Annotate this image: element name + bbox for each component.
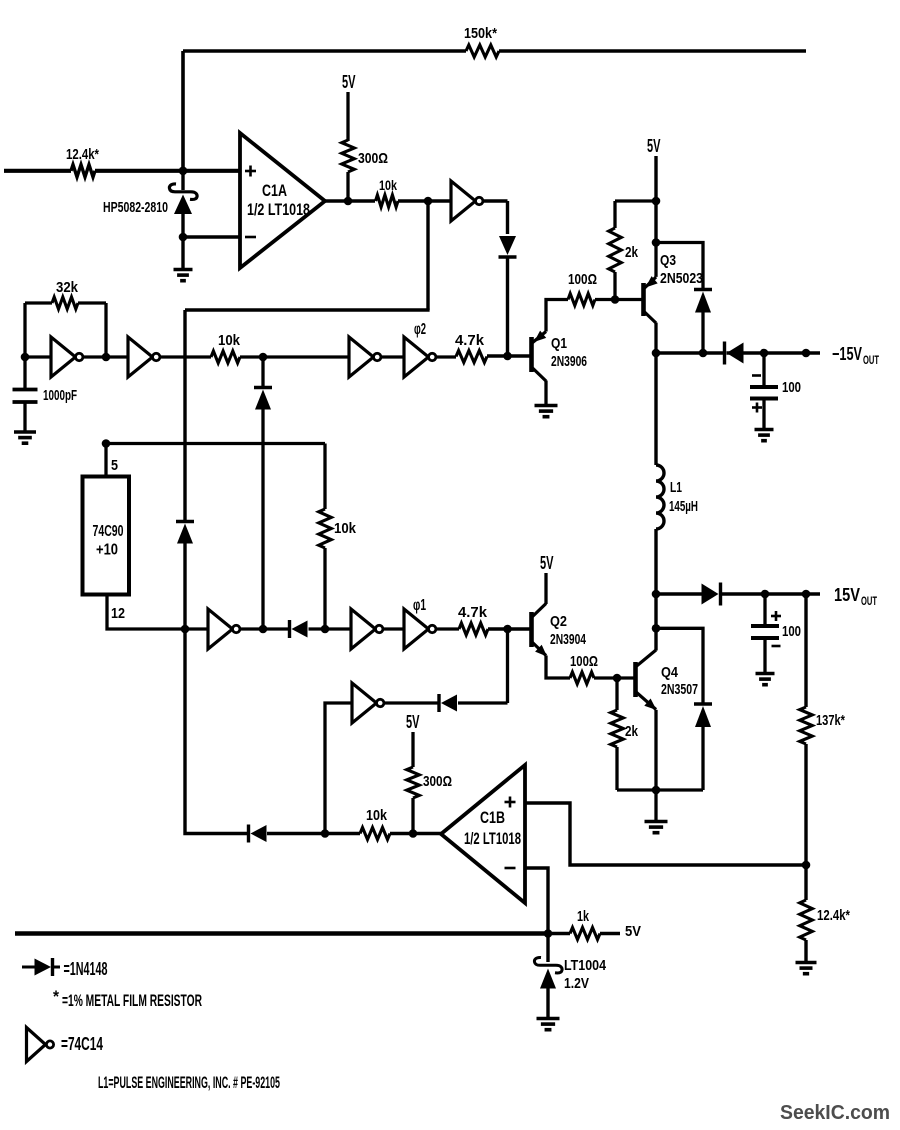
wire row629 segment a: [185, 627, 208, 630]
node C1A noninverting input junction: [179, 167, 188, 176]
svg-text:=1N4148: =1N4148: [64, 959, 108, 979]
svg-text:2k: 2k: [625, 244, 639, 261]
node bus junction row629: [181, 625, 190, 634]
wire to inverter: [398, 199, 451, 202]
wire Q3 collector to -15 rail: [654, 323, 657, 353]
wire phi1 to 4.7k: [436, 627, 459, 630]
svg-text:φ2: φ2: [414, 321, 426, 338]
node +15V cap junction: [761, 590, 770, 599]
power 5V for 300ohm: [342, 72, 356, 141]
node Q2 base drive junction: [503, 625, 512, 634]
node 150k tap junction: [802, 349, 811, 358]
diode D4 on bus x185: [176, 522, 194, 630]
inverter U2H 74C14 phi1: [404, 597, 436, 649]
svg-text:LT1004: LT1004: [564, 957, 607, 974]
svg-text:HP5082-2810: HP5082-2810: [103, 200, 168, 216]
svg-text:300Ω: 300Ω: [423, 773, 452, 790]
diode D9 1N4148 -15V: [725, 342, 744, 365]
wire 100ohm to Q4 base: [594, 676, 635, 679]
svg-text:SeekIC.com: SeekIC.com: [780, 1102, 890, 1124]
svg-text:100Ω: 100Ω: [568, 271, 597, 288]
power 5V for Q2: [540, 553, 554, 604]
ground under LT1004: [537, 1019, 560, 1030]
wire 32k right vertical: [104, 303, 107, 357]
resistor 10k vertical: [319, 509, 357, 629]
wire top feedback net: [183, 49, 806, 53]
svg-text:12.4k*: 12.4k*: [66, 147, 99, 163]
svg-text:=74C14: =74C14: [61, 1034, 103, 1054]
svg-text:150k*: 150k*: [464, 25, 497, 42]
wire vertical from 150k to C1A + input: [181, 51, 185, 171]
svg-text:10k: 10k: [366, 807, 388, 824]
wire 137k to 12.4k: [804, 865, 807, 900]
svg-text:2k: 2k: [625, 723, 639, 740]
svg-text:5V: 5V: [406, 712, 420, 732]
wire diode D2 to phi2 node: [506, 257, 509, 356]
ground under C3: [756, 640, 775, 685]
wire main vertical bus x185: [183, 310, 186, 521]
svg-text:+10: +10: [96, 542, 118, 559]
svg-text:12: 12: [111, 605, 125, 622]
wire input left with node: [4, 169, 240, 173]
ground under 12.4k*: [796, 963, 817, 974]
svg-text:100: 100: [782, 623, 801, 640]
node diode D11 branch junction: [652, 624, 661, 633]
wire pin5 stub: [106, 444, 118, 478]
svg-text:Q3: Q3: [660, 252, 676, 269]
node C1A inverting input junction: [179, 233, 188, 242]
inverter U2C 74C14 osc buffer: [128, 337, 160, 377]
wire inv D to inv E: [381, 355, 404, 358]
svg-text:=1% METAL FILM RESISTOR: =1% METAL FILM RESISTOR: [62, 991, 202, 1010]
wire row629 segment c: [309, 627, 352, 630]
node inv I branch junction: [321, 829, 330, 838]
wire Q1 emitter up: [546, 300, 568, 332]
ground under schottky: [174, 237, 193, 281]
legend diode symbol: [22, 958, 60, 976]
diode D6 1N4148 row703: [439, 694, 457, 712]
wire Q4 emitter down: [654, 710, 657, 790]
node diode branch junction: [259, 353, 268, 362]
wire row703 diode to corner: [458, 701, 508, 704]
node 2k top junction bottom: [613, 674, 622, 683]
svg-text:145µH: 145µH: [669, 498, 698, 515]
svg-text:1000pF: 1000pF: [43, 387, 77, 404]
svg-text:1.2V: 1.2V: [564, 975, 589, 992]
svg-text:4.7k: 4.7k: [458, 604, 488, 621]
svg-text:5V: 5V: [647, 136, 661, 156]
resistor 100ohm bottom: [570, 653, 598, 684]
wire 10k to C1B: [390, 832, 441, 835]
node D8 junction: [699, 349, 708, 358]
node C1A output junction: [344, 197, 353, 206]
IC U3 74C90 divide by 10: [83, 477, 130, 595]
node inverter input junction: [424, 197, 433, 206]
wire row 443: [106, 444, 325, 510]
svg-text:12.4k*: 12.4k*: [817, 907, 850, 924]
svg-text:32k: 32k: [56, 279, 79, 296]
wire C1B minus input: [525, 868, 548, 934]
node 5V to 2k junction: [652, 197, 661, 206]
svg-text:OUT: OUT: [863, 355, 879, 367]
diode D8 1N4148 vertical: [694, 290, 712, 354]
diode D11 1N4148 vertical bottom: [694, 704, 712, 790]
node Q1 base drive junction: [503, 352, 512, 361]
resistor 12.4k* input: [66, 147, 99, 177]
wire C1A output: [325, 199, 375, 202]
svg-text:10k: 10k: [334, 520, 357, 537]
wire 4.7k to Q2 base: [488, 627, 531, 630]
wire to diode D8: [656, 243, 703, 289]
svg-text:10k: 10k: [379, 177, 397, 193]
node divider junction x106: [102, 439, 111, 448]
svg-text:C1A: C1A: [262, 181, 287, 200]
svg-text:Q1: Q1: [551, 335, 567, 352]
wire 4.7k to Q1 base: [487, 354, 531, 357]
inductor L1 145uH: [656, 353, 698, 594]
capacitor C3 100uF +15V: [751, 594, 801, 646]
svg-text:5: 5: [111, 457, 118, 474]
wire from 10k node down-left to main vertical: [185, 201, 430, 310]
inverter U2G 74C14: [351, 609, 383, 649]
svg-text:2N3906: 2N3906: [551, 353, 587, 370]
wire row629 segment b: [240, 627, 288, 630]
power 5V top right: [647, 136, 661, 243]
wire bottom row to 10k: [267, 832, 360, 835]
capacitor C2 100uF -15V: [750, 353, 801, 413]
node 300ohm junction bottom: [409, 829, 418, 838]
transistor Q1 2N3906: [532, 331, 588, 381]
ground under Q1 collector: [535, 381, 558, 417]
svg-text:100: 100: [782, 379, 801, 396]
resistor 12.4k* bottom: [800, 900, 850, 962]
wire row629 segment d: [383, 627, 404, 630]
inverter U2I 74C14 row703: [352, 683, 384, 723]
svg-text:1k: 1k: [577, 908, 589, 925]
resistor 137k*: [800, 594, 845, 865]
diode D2 1N4148 down: [499, 236, 517, 257]
node osc feedback junction: [102, 353, 111, 362]
wire C1A inverting input: [183, 235, 240, 238]
wire -15V rail: [656, 351, 820, 355]
label -15Vout: [832, 344, 879, 367]
svg-text:5V: 5V: [625, 923, 641, 940]
node diode branch top junction: [652, 238, 661, 247]
wire Q2 emitter down: [546, 656, 570, 679]
resistor 10k osc row: [211, 332, 241, 363]
wire pin12 to row 629: [107, 595, 185, 630]
svg-text:5V: 5V: [342, 72, 356, 92]
resistor 100ohm top: [568, 271, 597, 306]
inverter U2F 74C14 row629: [208, 609, 240, 649]
svg-text:1/2 LT1018: 1/2 LT1018: [247, 201, 310, 219]
node -15V cap junction: [760, 349, 769, 358]
resistor 10k bottom: [360, 807, 390, 840]
svg-text:300Ω: 300Ω: [358, 150, 388, 167]
resistor 32k osc feedback: [25, 279, 106, 309]
wire inverter A output: [483, 201, 508, 234]
svg-text:2N3507: 2N3507: [661, 681, 698, 698]
svg-text:φ1: φ1: [413, 597, 426, 614]
ground under C2: [755, 401, 774, 441]
wire 100ohm to Q3 base: [595, 298, 643, 301]
diode D12 LT1004 1.2V zener: [534, 934, 606, 1019]
wire inv B out: [83, 355, 128, 358]
transistor Q2 2N3904: [532, 604, 587, 657]
diode D3 on bus to row629: [254, 357, 272, 629]
power 5V right label: [625, 923, 641, 940]
diode D1 HP5082-2810 schottky: [103, 171, 197, 237]
svg-text:5V: 5V: [540, 553, 554, 573]
wire bottom of driver: [617, 788, 703, 791]
diode D7 1N4148 bottom: [249, 825, 267, 843]
wire 5V to 2k: [615, 199, 656, 202]
svg-text:15V: 15V: [834, 585, 860, 605]
resistor 300ohm bottom: [407, 767, 452, 834]
node Q4 emitter ground junction: [652, 786, 661, 795]
resistor 150k*: [464, 25, 499, 57]
wire bottom row from bus: [185, 629, 248, 834]
inverter U2B 74C14 osc: [51, 337, 83, 377]
svg-text:1/2 LT1018: 1/2 LT1018: [464, 830, 521, 848]
transistor Q3 2N5023: [644, 252, 704, 323]
inverter U2A 74C14: [451, 181, 483, 221]
legend L1 note: [98, 1073, 280, 1092]
diode D5 1N4148 row629: [290, 620, 308, 638]
node osc input junction: [21, 353, 30, 362]
node 137k tap junction: [802, 590, 811, 599]
resistor 2k top: [609, 201, 639, 300]
svg-text:10k: 10k: [218, 332, 241, 349]
svg-text:C1B: C1B: [480, 808, 505, 827]
wire Q2 node down to row 703: [506, 629, 509, 703]
svg-text:100Ω: 100Ω: [570, 653, 598, 670]
power 5V mid: [406, 712, 420, 767]
wire 10k to inv D: [240, 355, 349, 358]
ground under 1000pF: [14, 404, 36, 444]
svg-text:74C90: 74C90: [93, 523, 124, 540]
diode D10 1N4148 +15V: [702, 583, 721, 606]
op-amp U1B C1B 1/2 LT1018: [441, 765, 525, 903]
capacitor 1000pF osc: [13, 357, 78, 404]
svg-text:137k*: 137k*: [816, 712, 845, 729]
inverter U2D 74C14: [349, 337, 381, 377]
wire 32k left vertical: [23, 303, 26, 357]
legend inverter symbol: [27, 1028, 54, 1062]
svg-text:Q4: Q4: [661, 664, 679, 681]
resistor 10k after C1A: [376, 177, 399, 207]
wire main vertical L1 to Q4 collector: [654, 594, 657, 651]
node Q3 collector junction: [652, 349, 661, 358]
svg-text:2N5023: 2N5023: [660, 270, 703, 287]
resistor 2k bottom: [611, 678, 639, 790]
legend 74C14 text: [61, 1034, 103, 1054]
wire inv I input from bottom row: [325, 703, 352, 834]
wire inv C out to 10k: [160, 355, 211, 358]
svg-text:L1=PULSE ENGINEERING, INC. #: L1=PULSE ENGINEERING, INC. # PE-92105: [98, 1073, 280, 1092]
ground under Q4: [645, 790, 668, 833]
node 10k bottom junction: [321, 625, 330, 634]
wire to diode D11: [656, 628, 703, 703]
node diode D3 target junction: [259, 625, 268, 634]
node 2k bottom junction: [611, 295, 620, 304]
svg-text:Q2: Q2: [550, 613, 567, 630]
wire feedback to C1B +: [525, 803, 806, 865]
node C1B minus rail junction: [544, 929, 553, 938]
resistor 4.7k phi1: [458, 604, 488, 635]
svg-text:*: *: [53, 987, 59, 1006]
wire phi2 out to 4.7k: [436, 355, 456, 358]
node L1 bottom junction: [652, 590, 661, 599]
resistor 1k: [548, 908, 620, 940]
transistor Q4 2N3507: [636, 650, 699, 710]
label +15Vout: [834, 585, 877, 608]
wire inv I out to diode: [384, 701, 439, 704]
wire Q3 emitter to 5V line: [654, 243, 657, 277]
watermark SeekIC.com: [780, 1102, 890, 1124]
inverter U2E 74C14 phi2: [404, 321, 436, 377]
svg-text:OUT: OUT: [861, 596, 877, 608]
wire +15V rail: [656, 592, 820, 596]
wire bottom 5V rail: [15, 931, 548, 935]
svg-text:4.7k: 4.7k: [455, 332, 485, 349]
legend star note: [53, 987, 202, 1010]
svg-text:2N3904: 2N3904: [550, 631, 586, 648]
svg-text:L1: L1: [670, 479, 682, 496]
op-amp U1A C1A 1/2 LT1018: [240, 133, 325, 268]
node feedback junction: [802, 861, 811, 870]
resistor 300ohm pullup C1A: [342, 140, 388, 201]
svg-text:−15V: −15V: [832, 344, 862, 364]
resistor 4.7k phi2: [455, 332, 487, 363]
legend 1N4148 text: [64, 959, 108, 979]
wire to inverter B: [25, 355, 51, 358]
